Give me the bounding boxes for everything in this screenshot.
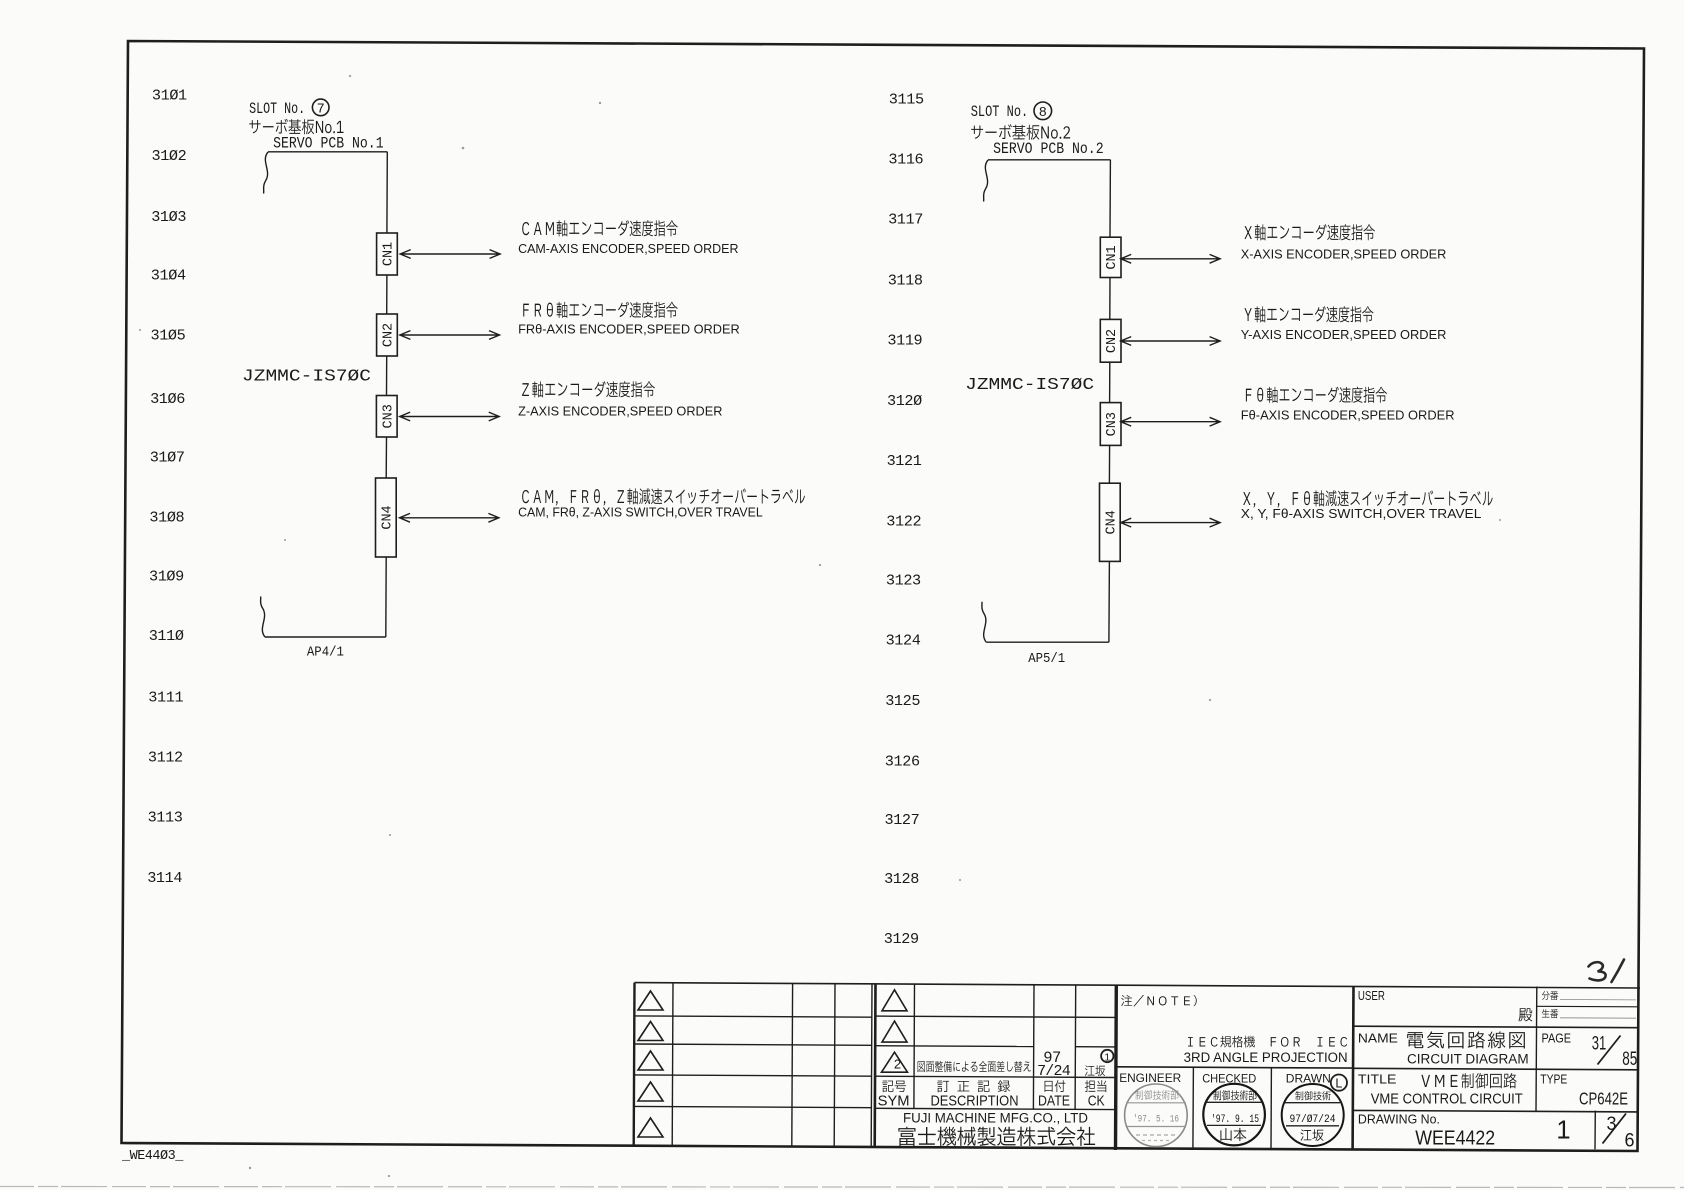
signal arrow CN3 servo2 (1120, 417, 1220, 426)
svg-text:3118: 3118 (888, 272, 923, 290)
revision note zenmen sashikae japanese (918, 1061, 925, 1072)
wire bottom horizontal servo1 (265, 636, 386, 638)
svg-text:3128: 3128 (884, 870, 919, 888)
svg-text:CN2: CN2 (1105, 329, 1120, 353)
svg-text:SERVO PCB No.2: SERVO PCB No.2 (993, 140, 1104, 158)
svg-text:FUJI MACHINE MFG.CO., LTD: FUJI MACHINE MFG.CO., LTD (903, 1110, 1088, 1126)
svg-text:CN4: CN4 (1104, 510, 1119, 534)
wire bus servo2 seg5 (1108, 561, 1111, 642)
svg-text:CIRCUIT DIAGRAM: CIRCUIT DIAGRAM (1407, 1052, 1529, 1068)
revision triangle A middle (882, 990, 907, 1011)
svg-text:31Ø9: 31Ø9 (149, 568, 184, 586)
notes box divider thick (1114, 985, 1118, 1150)
svg-text:CN3: CN3 (1105, 412, 1120, 436)
label CAM axis encoder speed order japanese (522, 222, 529, 235)
label X Y F axis switch over travel japanese (1243, 492, 1250, 505)
revision table middle (873, 984, 876, 1147)
svg-text:31Ø8: 31Ø8 (149, 508, 184, 526)
svg-text:3119: 3119 (887, 332, 922, 350)
svg-text:6: 6 (1625, 1131, 1635, 1152)
wire bus servo1 seg1 (386, 152, 388, 233)
svg-text:31Ø6: 31Ø6 (150, 390, 185, 408)
svg-text:DESCRIPTION: DESCRIPTION (931, 1093, 1019, 1110)
svg-text:WEE4422: WEE4422 (1415, 1126, 1495, 1149)
svg-text:85: 85 (1622, 1049, 1637, 1070)
label Z axis encoder speed order japanese (522, 383, 529, 396)
svg-text:31: 31 (1592, 1034, 1607, 1055)
label servo pcb no.2 japanese (971, 126, 983, 139)
header SYM kigou japanese (882, 1081, 893, 1093)
header DATE hizuke japanese (1045, 1081, 1053, 1092)
drawing number cell divider (1594, 1111, 1596, 1150)
IEC kikakuki FOR IEC japanese (1188, 1037, 1193, 1046)
label FR theta axis encoder speed order japanese (523, 304, 529, 317)
svg-text:CK: CK (1088, 1093, 1105, 1110)
svg-text:CN3: CN3 (381, 404, 396, 428)
svg-text:2: 2 (894, 1057, 901, 1072)
svg-text:3RD ANGLE PROJECTION: 3RD ANGLE PROJECTION (1184, 1050, 1348, 1066)
svg-text:SERVO PCB No.1: SERVO PCB No.1 (273, 135, 384, 153)
revision triangle 2 middle (882, 1052, 908, 1072)
revision triangle row1 left (638, 991, 663, 1010)
wire bottom horizontal servo2 (986, 641, 1109, 643)
wire top horizontal servo2 (988, 159, 1110, 161)
connector CN1 (servo2) (1100, 237, 1121, 277)
wire bus servo2 seg4 (1108, 445, 1110, 483)
svg-text:31Ø4: 31Ø4 (151, 266, 186, 284)
svg-text:3122: 3122 (886, 513, 921, 531)
svg-text:311Ø: 311Ø (149, 627, 184, 645)
svg-text:3126: 3126 (885, 753, 920, 771)
svg-text:Fθ-AXIS ENCODER,SPEED ORDER: Fθ-AXIS ENCODER,SPEED ORDER (1241, 408, 1455, 423)
company fuji kikai seizou kabushiki gaisha japanese (898, 1127, 915, 1146)
svg-text:3116: 3116 (888, 151, 923, 169)
svg-text:CAM-AXIS ENCODER,SPEED ORDER: CAM-AXIS ENCODER,SPEED ORDER (518, 241, 738, 256)
wire bus servo1 seg3 (386, 356, 388, 396)
label CAM FR Z axis switch over travel japanese (522, 490, 529, 503)
svg-text:SYM: SYM (878, 1093, 910, 1110)
signal arrow CN2 servo2 (1120, 337, 1220, 346)
revision table left (635, 983, 1641, 988)
label bunban japanese (1542, 991, 1550, 1000)
signal arrow CN4 servo2 (1120, 518, 1220, 527)
svg-text:_WE44Ø3_: _WE44Ø3_ (121, 1149, 184, 1164)
page column divider (1535, 987, 1538, 1112)
svg-text:NAME: NAME (1358, 1031, 1398, 1046)
svg-text:97/Ø7/24: 97/Ø7/24 (1290, 1114, 1336, 1126)
revision triangle B middle (882, 1021, 907, 1042)
svg-text:1: 1 (1556, 1117, 1570, 1145)
svg-text:AP5/1: AP5/1 (1028, 651, 1065, 667)
connector CN4 (servo1) (376, 478, 397, 557)
wire bus servo2 seg3 (1109, 362, 1111, 402)
svg-text:8: 8 (1039, 106, 1047, 121)
handwritten page number 31 (1589, 962, 1606, 980)
svg-text:DRAWING No.: DRAWING No. (1358, 1111, 1440, 1126)
title info row line user-name (1354, 1026, 1638, 1028)
label seiban japanese (1542, 1009, 1550, 1017)
notes box bottom line (1116, 1067, 1353, 1068)
label tono japanese (1518, 1008, 1532, 1021)
title VME seigyo kairo japanese (1421, 1075, 1430, 1087)
signal arrow CN1 servo2 (1120, 254, 1220, 263)
svg-text:3124: 3124 (886, 632, 921, 650)
svg-text:SLOT No.: SLOT No. (971, 103, 1029, 121)
svg-text:JZMMC-IS7ØC: JZMMC-IS7ØC (242, 368, 371, 387)
label Y axis encoder speed order japanese (1244, 308, 1251, 321)
svg-text:3117: 3117 (888, 210, 923, 228)
svg-text:L: L (1335, 1077, 1342, 1091)
signal arrow CN2 servo1 (399, 331, 500, 340)
connector CN1 (servo1) (377, 233, 398, 275)
break squiggle top servo1 (264, 152, 269, 194)
signal arrow CN3 servo1 (399, 412, 500, 421)
revision triangle row5 left (638, 1118, 663, 1137)
svg-text:312Ø: 312Ø (887, 392, 922, 410)
svg-text:SLOT No.: SLOT No. (249, 100, 305, 118)
wire bus servo2 seg1 (1109, 160, 1111, 237)
checked stamp circle (1203, 1084, 1265, 1146)
signal arrow CN1 servo1 (400, 250, 501, 259)
user box divider thick (1351, 987, 1355, 1150)
svg-text:3129: 3129 (884, 930, 919, 948)
label servo pcb no.1 japanese (249, 120, 260, 133)
connector CN2 (servo1) (377, 314, 398, 356)
svg-text:USER: USER (1358, 988, 1385, 1003)
svg-text:3127: 3127 (885, 811, 920, 829)
svg-text:JZMMC-IS7ØC: JZMMC-IS7ØC (965, 376, 1094, 395)
svg-text:3113: 3113 (148, 808, 183, 826)
svg-text:TITLE: TITLE (1358, 1072, 1397, 1087)
note label japanese (1121, 995, 1132, 1006)
connector CN3 (servo2) (1100, 403, 1121, 446)
drawn stamp circle (1282, 1084, 1344, 1146)
wire bus servo1 seg5 (385, 557, 387, 637)
label F theta axis encoder speed order japanese (1246, 389, 1252, 402)
svg-text:CN4: CN4 (380, 505, 395, 529)
svg-text:'97. 9. 15: '97. 9. 15 (1211, 1114, 1259, 1126)
stamp row divider engineer-checked (1192, 1067, 1195, 1149)
title info row line title-drawing (1354, 1110, 1638, 1112)
svg-text:3125: 3125 (885, 692, 920, 710)
svg-text:3112: 3112 (148, 748, 183, 766)
label X axis encoder speed order japanese (1244, 226, 1251, 239)
svg-text:X-AXIS ENCODER,SPEED ORDER: X-AXIS ENCODER,SPEED ORDER (1241, 247, 1447, 262)
header CK tantou japanese (1085, 1080, 1095, 1092)
svg-text:7/24: 7/24 (1037, 1063, 1071, 1080)
svg-text:VME CONTROL CIRCUIT: VME CONTROL CIRCUIT (1371, 1091, 1523, 1107)
svg-text:AP4/1: AP4/1 (307, 645, 344, 661)
svg-text:PAGE: PAGE (1542, 1031, 1572, 1046)
svg-text:CN1: CN1 (382, 242, 397, 266)
svg-text:ENGINEER: ENGINEER (1119, 1071, 1181, 1085)
svg-text:CN2: CN2 (382, 323, 397, 347)
svg-text:3111: 3111 (148, 688, 183, 706)
break squiggle bottom servo1 (261, 597, 266, 638)
title info row line name-title (1354, 1068, 1638, 1070)
svg-text:CP642E: CP642E (1579, 1089, 1628, 1109)
svg-text:3115: 3115 (889, 91, 924, 109)
svg-text:Y-AXIS ENCODER,SPEED ORDER: Y-AXIS ENCODER,SPEED ORDER (1241, 327, 1447, 342)
wire bus servo1 seg4 (385, 437, 387, 478)
svg-text:3121: 3121 (887, 452, 922, 470)
connector CN2 (servo2) (1100, 319, 1121, 362)
svg-text:FRθ-AXIS ENCODER,SPEED ORDER: FRθ-AXIS ENCODER,SPEED ORDER (518, 322, 740, 337)
svg-text:CN1: CN1 (1105, 245, 1120, 269)
svg-text:1: 1 (1104, 1052, 1110, 1064)
stamp row divider checked-drawn (1270, 1068, 1272, 1150)
slot number circle 8 (1034, 102, 1052, 120)
wire top horizontal servo1 (268, 151, 387, 153)
svg-text:31Ø3: 31Ø3 (151, 208, 186, 226)
bunban seiban row divider (1537, 1005, 1638, 1008)
revision CK esaka japanese (1085, 1065, 1095, 1076)
name denki kairo senzu japanese (1407, 1032, 1423, 1048)
break squiggle bottom servo2 (982, 602, 987, 643)
svg-text:31Ø1: 31Ø1 (152, 86, 187, 104)
slot number circle 7 (312, 99, 329, 116)
svg-text:3123: 3123 (886, 572, 921, 590)
svg-text:7: 7 (317, 103, 325, 118)
svg-text:31Ø2: 31Ø2 (152, 147, 187, 165)
engineer stamp circle (faint) (1125, 1084, 1188, 1147)
svg-text:X, Y, Fθ-AXIS SWITCH,OVER TRAV: X, Y, Fθ-AXIS SWITCH,OVER TRAVEL (1241, 506, 1482, 521)
revision triangle row3 left (638, 1051, 663, 1070)
svg-text:TYPE: TYPE (1540, 1072, 1567, 1087)
signal arrow CN4 servo1 (399, 513, 499, 522)
connector CN3 (servo1) (376, 396, 397, 438)
svg-text:'97. 5. 16: '97. 5. 16 (1133, 1114, 1179, 1126)
scan speckles (139, 75, 1501, 1177)
svg-text:Z-AXIS ENCODER,SPEED ORDER: Z-AXIS ENCODER,SPEED ORDER (518, 404, 722, 419)
revision triangle row4 left (638, 1082, 663, 1101)
wire bus servo2 seg2 (1109, 278, 1111, 320)
connector CN4 (servo2) (1100, 483, 1121, 561)
wire bus servo1 seg2 (386, 275, 388, 314)
svg-text:DATE: DATE (1038, 1093, 1070, 1110)
revision triangle row2 left (638, 1022, 663, 1041)
svg-text:3114: 3114 (147, 869, 182, 887)
header DESCRIPTION teisei kiroku japanese (937, 1081, 949, 1093)
break squiggle top servo2 (984, 160, 989, 202)
svg-text:31Ø7: 31Ø7 (150, 448, 185, 466)
circled L mark by DRAWN (1331, 1075, 1347, 1091)
scan edge line at bottom (0, 1187, 1684, 1188)
svg-text:CAM, FRθ, Z-AXIS SWITCH,OVER T: CAM, FRθ, Z-AXIS SWITCH,OVER TRAVEL (518, 505, 763, 520)
circled mark on CK cell (1101, 1050, 1113, 1062)
svg-text:31Ø5: 31Ø5 (151, 326, 186, 344)
